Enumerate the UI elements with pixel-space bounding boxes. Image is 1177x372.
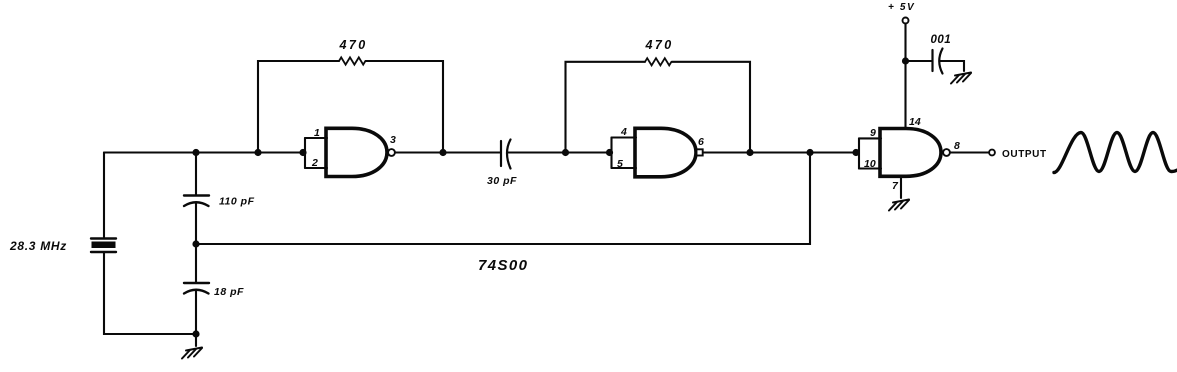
svg-text:30 pF: 30 pF: [487, 175, 517, 187]
svg-text:3: 3: [390, 134, 396, 146]
wire between caps: [195, 203, 197, 245]
wire feedback loop 1 left/top/right: [258, 61, 339, 153]
wire loop2 right side: [672, 62, 750, 153]
svg-text:28.3 MHz: 28.3 MHz: [9, 239, 67, 253]
svg-text:001: 001: [931, 34, 952, 46]
resistor R1 470: [339, 57, 365, 64]
node junction loop1 right on output: [439, 149, 446, 156]
terminal +5V: [903, 18, 909, 24]
svg-text:14: 14: [909, 116, 921, 128]
node junction gate1 input: [299, 149, 306, 156]
svg-text:OUTPUT: OUTPUT: [1002, 149, 1047, 160]
wire gate1 input bracket: [305, 138, 327, 168]
crystal Y1 28.3 MHz: [91, 239, 116, 253]
wire gate3 output: [950, 151, 989, 153]
svg-text:7: 7: [892, 180, 899, 192]
capacitor C2 18 pF: [184, 283, 209, 294]
wire gate2 output to gate3: [703, 151, 859, 153]
svg-text:6: 6: [698, 136, 704, 148]
wire after 30pF: [508, 151, 613, 153]
wire ground stub bottom: [195, 334, 197, 346]
ground bypass cap: [951, 73, 971, 84]
node junction +5V rail: [902, 57, 909, 64]
node junction gate2 input: [606, 149, 613, 156]
wire crystal left branch: [103, 153, 105, 238]
wire cap branch lower: [195, 244, 197, 282]
wire gate2 input bracket: [612, 138, 637, 169]
wire loop1 right side: [366, 61, 443, 153]
svg-text:5: 5: [617, 158, 623, 170]
node junction loop2 left: [562, 149, 569, 156]
node junction between caps: [192, 240, 199, 247]
svg-text:2: 2: [311, 157, 318, 169]
waveform sine output: [1054, 133, 1177, 173]
capacitor C3 30 pF: [501, 140, 511, 169]
wire long feedback line to third gate: [196, 153, 810, 245]
resistor R2 470: [645, 58, 671, 65]
ground bottom left: [182, 348, 202, 359]
svg-text:1: 1: [314, 127, 320, 139]
bubble gate2 output square: [697, 149, 703, 155]
svg-text:4: 4: [620, 126, 627, 138]
node junction gate3 input: [852, 149, 859, 156]
pin 14 wire power: [904, 24, 906, 129]
svg-text:470: 470: [645, 38, 674, 52]
svg-text:470: 470: [339, 38, 368, 52]
wire feedback loop 2 left/top: [566, 62, 646, 153]
wire crystal bottom branch: [104, 252, 196, 334]
wire bypass cap to ground: [940, 61, 964, 71]
ground pin 7: [889, 200, 909, 211]
node junction loop1 left: [254, 149, 261, 156]
wire cap branch upper: [195, 153, 197, 196]
op-amp U1B nand gate body: [635, 128, 696, 177]
bubble gate3 output: [943, 149, 950, 156]
svg-text:110 pF: 110 pF: [219, 196, 255, 208]
svg-text:18 pF: 18 pF: [214, 286, 244, 298]
op-amp U1A nand gate body: [326, 128, 387, 176]
svg-text:8: 8: [954, 140, 960, 152]
svg-text:10: 10: [864, 158, 876, 170]
node junction 110pF branch top: [192, 149, 199, 156]
capacitor C1 110 pF: [184, 196, 209, 207]
wire gate1 output: [395, 151, 501, 153]
op-amp U1C nand gate body: [880, 129, 941, 177]
pin 7 wire ground: [900, 177, 902, 199]
node junction crystal-caps bottom: [192, 330, 199, 337]
wire 18pF to bottom node: [195, 290, 197, 334]
svg-text:9: 9: [870, 127, 876, 139]
node junction loop2 right: [746, 149, 753, 156]
svg-text:+ 5V: + 5V: [888, 2, 915, 13]
wire gate3 input bracket: [859, 138, 881, 168]
capacitor C4 .001 bypass: [933, 49, 943, 74]
bubble gate1 output: [388, 149, 395, 156]
wire main signal line left segment: [104, 151, 305, 153]
terminal output: [989, 150, 995, 156]
wire +5V to bypass cap: [906, 60, 933, 62]
svg-text:74S00: 74S00: [478, 257, 528, 274]
node junction feedback on main line: [806, 149, 813, 156]
